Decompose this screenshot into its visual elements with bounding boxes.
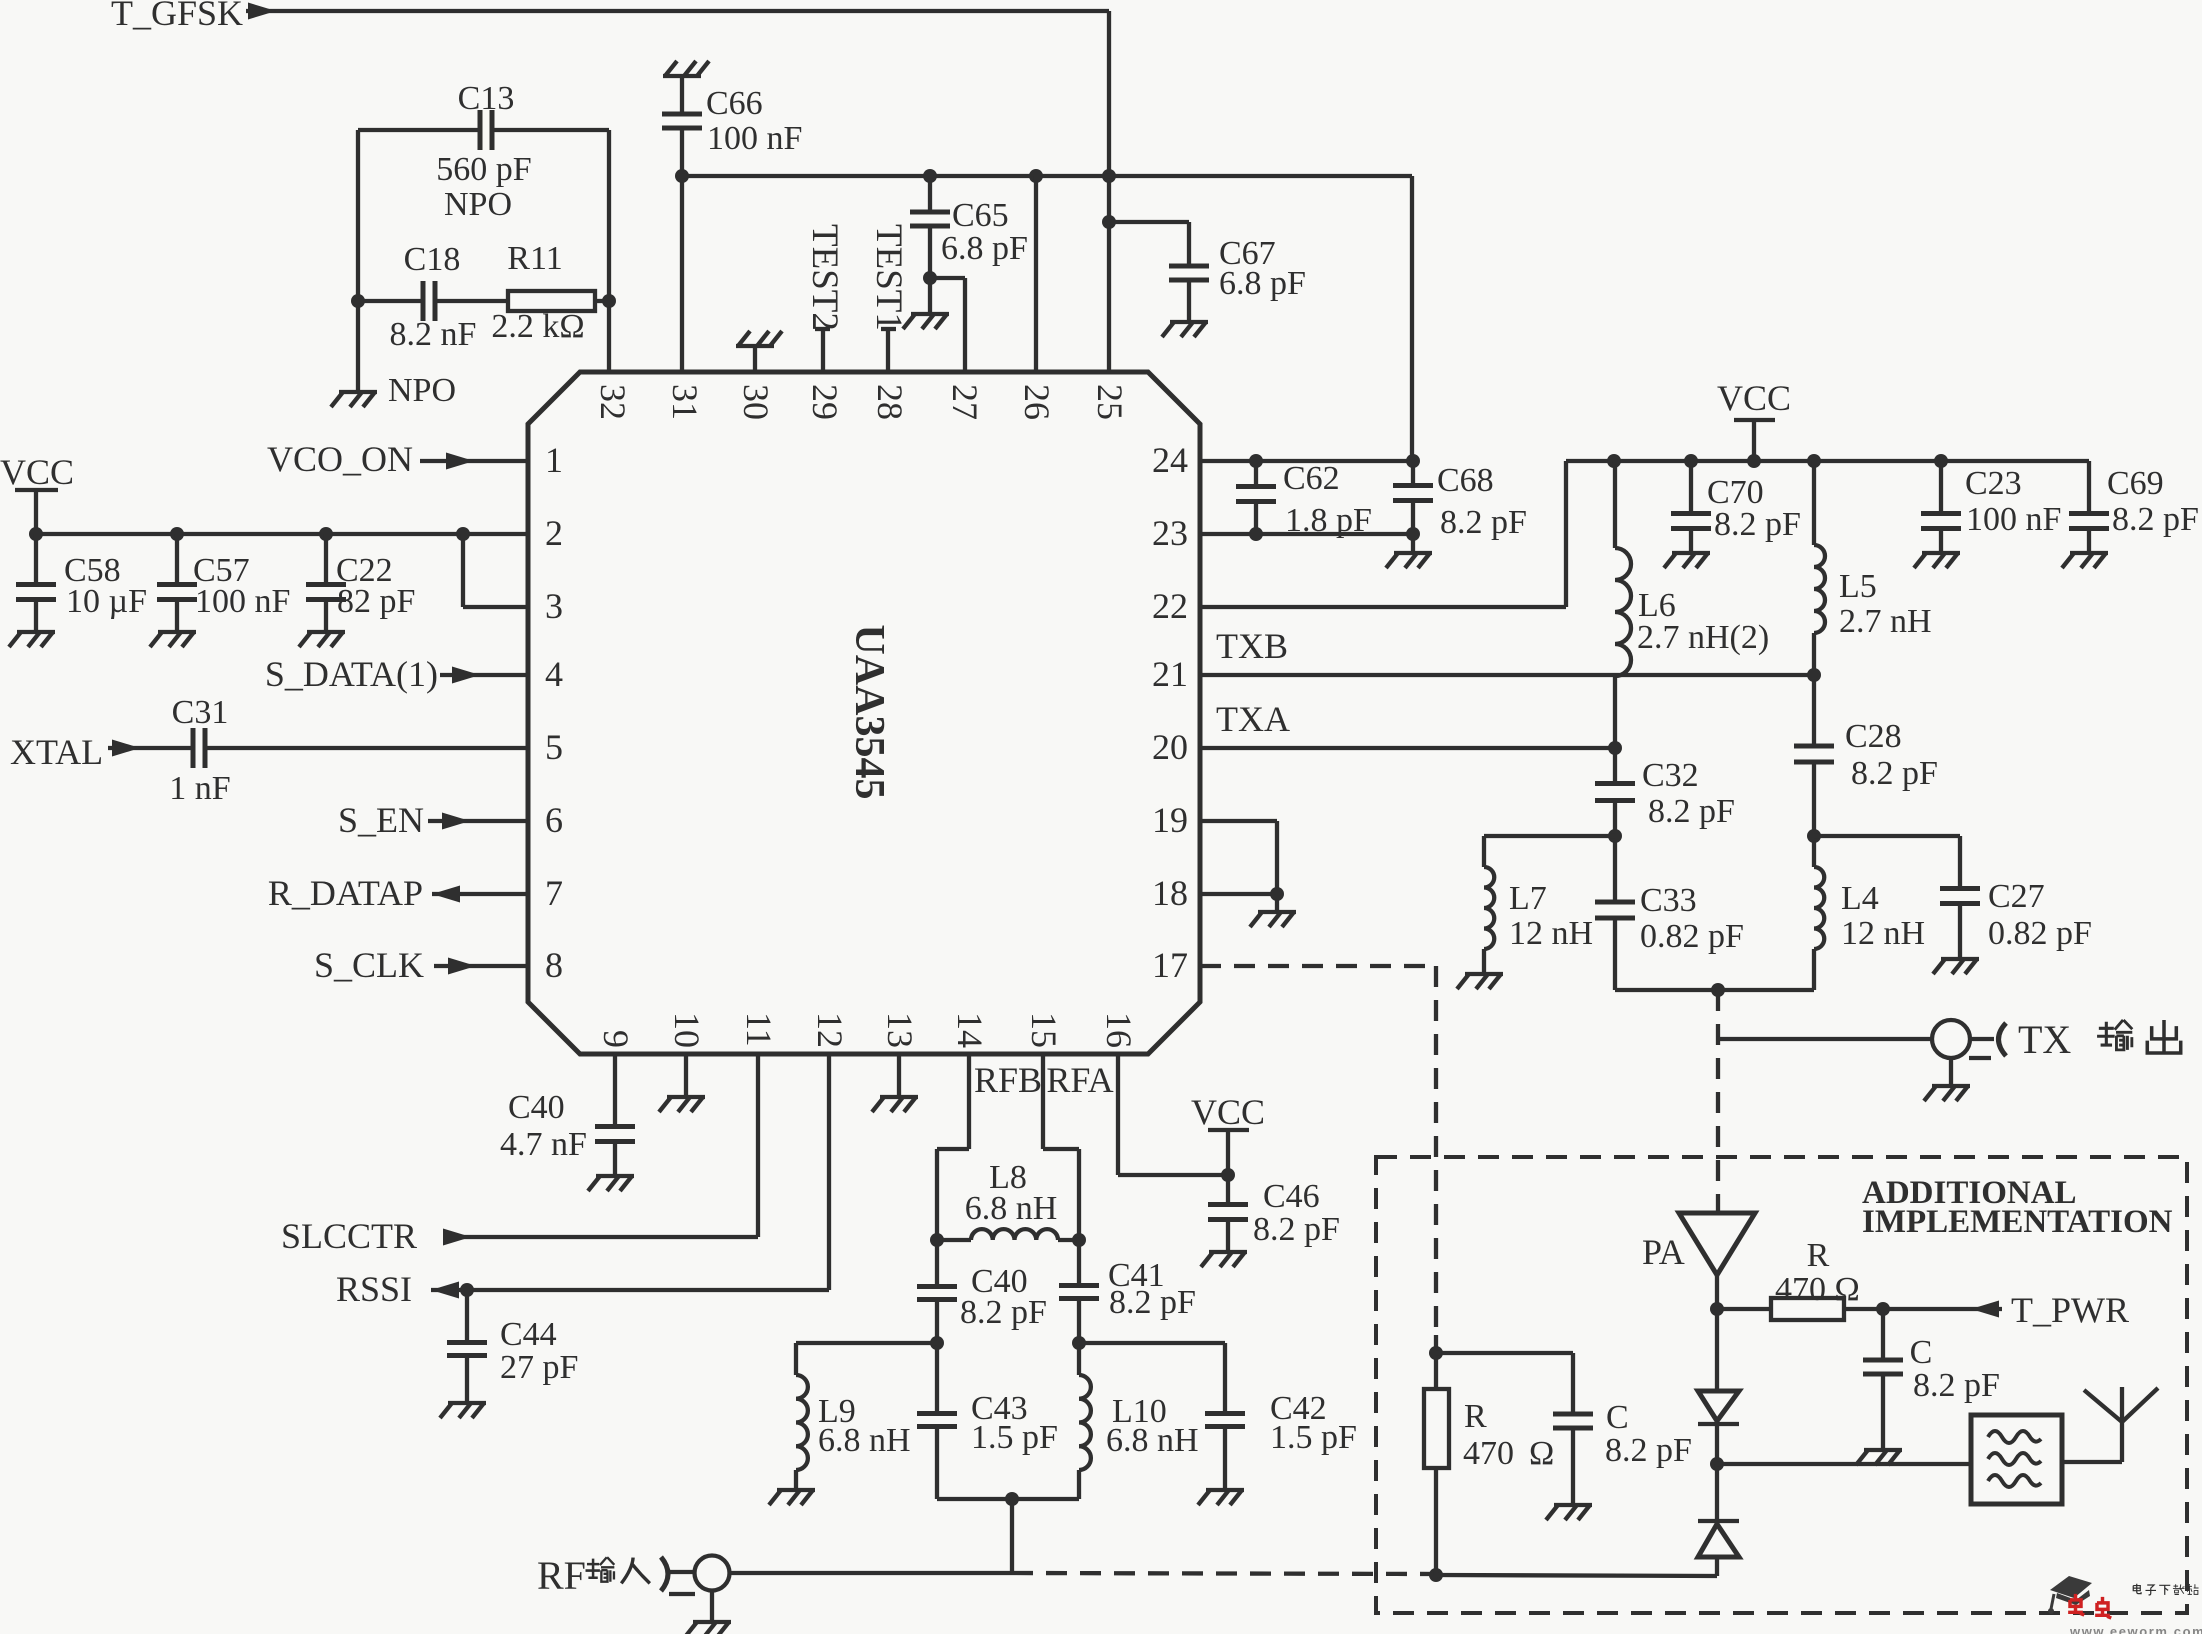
svg-text:RFB: RFB — [974, 1060, 1042, 1100]
svg-text:S_CLK: S_CLK — [314, 945, 424, 985]
svg-text:8.2 pF: 8.2 pF — [1714, 506, 1801, 543]
svg-text:VCO_ON: VCO_ON — [267, 439, 413, 479]
svg-text:R11: R11 — [507, 240, 562, 277]
svg-text:C44: C44 — [500, 1316, 557, 1353]
svg-text:1: 1 — [545, 440, 563, 480]
svg-text:6.8 pF: 6.8 pF — [941, 230, 1028, 267]
svg-text:8.2 pF: 8.2 pF — [1253, 1211, 1340, 1248]
svg-text:12 nH: 12 nH — [1841, 915, 1925, 952]
svg-text:11: 11 — [739, 1012, 779, 1047]
svg-text:L5: L5 — [1839, 568, 1877, 605]
svg-text:2.7 nH(2): 2.7 nH(2) — [1637, 619, 1769, 656]
svg-text:21: 21 — [1152, 654, 1188, 694]
svg-text:470: 470 — [1463, 1435, 1514, 1472]
svg-text:2.2 kΩ: 2.2 kΩ — [491, 308, 584, 345]
svg-text:10 µF: 10 µF — [66, 583, 147, 620]
svg-text:T_GFSK: T_GFSK — [111, 0, 243, 33]
svg-text:XTAL: XTAL — [10, 732, 103, 772]
svg-text:4.7 nF: 4.7 nF — [500, 1126, 587, 1163]
svg-text:IMPLEMENTATION: IMPLEMENTATION — [1862, 1204, 2173, 1240]
svg-text:C28: C28 — [1845, 718, 1902, 755]
svg-text:560 pF: 560 pF — [436, 151, 531, 188]
svg-text:C33: C33 — [1640, 882, 1697, 919]
svg-text:8.2 pF: 8.2 pF — [1648, 793, 1735, 830]
svg-text:15: 15 — [1024, 1012, 1064, 1048]
svg-text:R: R — [1464, 1398, 1487, 1435]
svg-text:6: 6 — [545, 800, 563, 840]
svg-text:RSSI: RSSI — [336, 1269, 412, 1309]
svg-text:L4: L4 — [1841, 880, 1879, 917]
svg-text:L7: L7 — [1509, 880, 1547, 917]
svg-text:8.2 pF: 8.2 pF — [2112, 501, 2199, 538]
svg-text:8.2 pF: 8.2 pF — [1851, 755, 1938, 792]
svg-text:TEST2: TEST2 — [804, 224, 845, 331]
svg-text:C18: C18 — [404, 241, 461, 278]
svg-text:12 nH: 12 nH — [1509, 915, 1593, 952]
svg-text:C68: C68 — [1437, 462, 1494, 499]
svg-text:5: 5 — [545, 727, 563, 767]
svg-text:0.82 pF: 0.82 pF — [1640, 918, 1744, 955]
svg-text:31: 31 — [665, 384, 705, 420]
svg-text:10: 10 — [667, 1012, 707, 1048]
svg-text:8.2 nF: 8.2 nF — [390, 316, 477, 353]
svg-text:470 Ω: 470 Ω — [1775, 1271, 1860, 1308]
svg-text:S_EN: S_EN — [338, 800, 424, 840]
svg-text:TXA: TXA — [1216, 699, 1290, 739]
svg-text:6.8 nH: 6.8 nH — [1106, 1422, 1199, 1459]
svg-text:UAA3545: UAA3545 — [846, 625, 892, 800]
svg-text:30: 30 — [736, 384, 776, 420]
svg-text:0.82 pF: 0.82 pF — [1988, 915, 2092, 952]
svg-text:C46: C46 — [1263, 1178, 1320, 1215]
svg-text:C62: C62 — [1283, 460, 1340, 497]
svg-text:RFA: RFA — [1046, 1060, 1113, 1100]
svg-text:14: 14 — [950, 1012, 990, 1048]
svg-text:1 nF: 1 nF — [169, 770, 230, 807]
svg-text:2: 2 — [545, 513, 563, 553]
svg-text:C69: C69 — [2107, 465, 2164, 502]
svg-text:18: 18 — [1152, 873, 1188, 913]
svg-text:T_PWR: T_PWR — [2011, 1290, 2129, 1330]
svg-text:TEST1: TEST1 — [868, 224, 909, 331]
svg-text:8.2 pF: 8.2 pF — [1440, 504, 1527, 541]
svg-text:C65: C65 — [952, 197, 1009, 234]
svg-text:1.8 pF: 1.8 pF — [1285, 502, 1372, 539]
svg-text:1.5 pF: 1.5 pF — [971, 1419, 1058, 1456]
svg-text:R_DATAP: R_DATAP — [268, 873, 423, 913]
svg-text:NPO: NPO — [444, 186, 512, 223]
svg-text:4: 4 — [545, 654, 563, 694]
svg-text:NPO: NPO — [388, 372, 456, 409]
svg-text:VCC: VCC — [0, 452, 74, 492]
svg-text:S_DATA(1): S_DATA(1) — [265, 654, 438, 694]
svg-text:26: 26 — [1017, 384, 1057, 420]
svg-text:24: 24 — [1152, 440, 1188, 480]
svg-text:100 nF: 100 nF — [707, 120, 802, 157]
svg-text:82 pF: 82 pF — [337, 583, 415, 620]
svg-text:SLCCTR: SLCCTR — [281, 1216, 417, 1256]
svg-text:16: 16 — [1099, 1012, 1139, 1048]
svg-text:8.2 pF: 8.2 pF — [960, 1294, 1047, 1331]
svg-text:8: 8 — [545, 945, 563, 985]
svg-text:8.2 pF: 8.2 pF — [1913, 1367, 2000, 1404]
svg-text:6.8 nH: 6.8 nH — [818, 1422, 911, 1459]
svg-text:19: 19 — [1152, 800, 1188, 840]
svg-text:TX: TX — [2018, 1017, 2071, 1062]
svg-text:3: 3 — [545, 586, 563, 626]
svg-text:VCC: VCC — [1717, 378, 1791, 418]
svg-text:8.2 pF: 8.2 pF — [1605, 1432, 1692, 1469]
svg-text:C32: C32 — [1642, 757, 1699, 794]
svg-text:VCC: VCC — [1191, 1092, 1265, 1132]
svg-text:C27: C27 — [1988, 878, 2045, 915]
svg-text:C40: C40 — [508, 1089, 565, 1126]
svg-text:6.8 nH: 6.8 nH — [965, 1190, 1058, 1227]
svg-text:32: 32 — [593, 384, 633, 420]
svg-text:Ω: Ω — [1529, 1435, 1554, 1472]
svg-text:9: 9 — [596, 1030, 636, 1048]
svg-text:12: 12 — [810, 1012, 850, 1048]
svg-text:PA: PA — [1642, 1232, 1685, 1272]
svg-text:100 nF: 100 nF — [195, 583, 290, 620]
svg-text:2.7 nH: 2.7 nH — [1839, 603, 1932, 640]
svg-text:100 nF: 100 nF — [1966, 501, 2061, 538]
svg-text:17: 17 — [1152, 945, 1188, 985]
svg-text:20: 20 — [1152, 727, 1188, 767]
svg-text:C13: C13 — [458, 80, 515, 117]
svg-text:22: 22 — [1152, 586, 1188, 626]
svg-text:C: C — [1910, 1334, 1933, 1371]
svg-text:C23: C23 — [1965, 465, 2022, 502]
svg-text:C66: C66 — [706, 85, 763, 122]
svg-text:6.8 pF: 6.8 pF — [1219, 265, 1306, 302]
svg-text:27: 27 — [945, 384, 985, 420]
svg-text:13: 13 — [880, 1012, 920, 1048]
svg-text:1.5 pF: 1.5 pF — [1270, 1419, 1357, 1456]
svg-text:C: C — [1606, 1399, 1629, 1436]
svg-text:www.eeworm.com: www.eeworm.com — [2069, 1624, 2202, 1634]
svg-text:TXB: TXB — [1216, 626, 1288, 666]
svg-text:28: 28 — [870, 384, 910, 420]
svg-text:RF: RF — [537, 1553, 586, 1598]
svg-text:27 pF: 27 pF — [500, 1349, 578, 1386]
svg-text:7: 7 — [545, 873, 563, 913]
svg-text:8.2 pF: 8.2 pF — [1109, 1284, 1196, 1321]
svg-text:25: 25 — [1090, 384, 1130, 420]
svg-text:29: 29 — [805, 384, 845, 420]
svg-text:R: R — [1807, 1237, 1830, 1274]
svg-text:C31: C31 — [172, 694, 229, 731]
svg-text:23: 23 — [1152, 513, 1188, 553]
